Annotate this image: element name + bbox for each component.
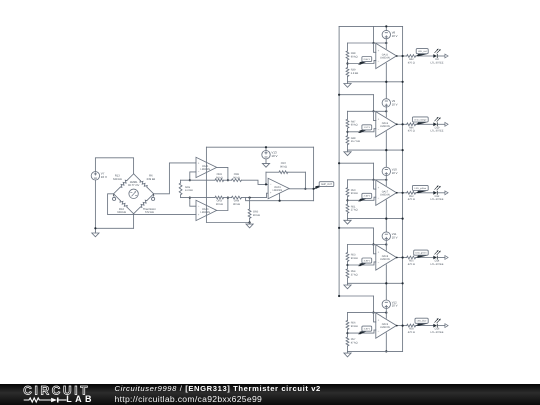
wire block2 minus lead (348, 129, 376, 132)
stub OA18 vminus (385, 265, 387, 285)
wire bridge bottom rail (95, 227, 133, 229)
wire OA16 output (396, 123, 407, 125)
wire OA18 output (396, 256, 407, 258)
wire LED to terminator (438, 325, 445, 327)
ground G3 under OR5 (246, 223, 253, 228)
resistor OR2 90k (215, 173, 224, 181)
junction V7-ground (94, 227, 96, 229)
thermistor RT1 bridge bottom-right (134, 194, 156, 214)
wire row1 left (181, 179, 215, 181)
plot url (115, 395, 263, 404)
wire bridge bottom stub (133, 214, 135, 229)
wire LED to terminator (438, 123, 445, 125)
op-amp OA23 (268, 178, 289, 198)
wire block1 plus lead (374, 43, 376, 52)
wire block1 ref bus (348, 42, 387, 44)
node block1 vsrc junction (385, 42, 387, 44)
svg-text:LED_green: LED_green (415, 252, 427, 255)
wire OA21 inverting lead (190, 172, 196, 180)
svg-text:90 kΩ: 90 kΩ (216, 176, 223, 179)
stub OA19 vplus (385, 313, 387, 319)
wire block1 bottom (348, 81, 404, 83)
svg-text:LTL-307EE: LTL-307EE (431, 130, 444, 133)
node block3 divider junction (346, 199, 348, 201)
wire OA23 negative supply (246, 198, 314, 201)
svg-text:90 kΩ: 90 kΩ (351, 124, 358, 127)
svg-text:90 kΩ: 90 kΩ (351, 192, 358, 195)
resistor OR6 90k (232, 173, 242, 181)
svg-text:47 kΩ: 47 kΩ (351, 342, 358, 345)
op-amp OA16 (376, 112, 397, 137)
wire supply rail top (206, 146, 313, 148)
wire V7 bottom to ground rail (94, 180, 96, 231)
plot title (115, 385, 321, 393)
node block2 tap junction (372, 110, 374, 112)
wire to LED (416, 55, 434, 57)
wire row2 left (181, 197, 215, 199)
stub OA16 vplus (385, 111, 387, 117)
node row1 junction a (189, 179, 191, 181)
svg-text:16.7 kΩ: 16.7 kΩ (351, 140, 360, 143)
op-amp OA18 (376, 245, 397, 270)
resistor R13 bridge top-left (113, 174, 134, 194)
wire row1 mid (224, 179, 232, 181)
voltage source V12 10 V (382, 282, 397, 312)
terminator block4 (445, 256, 448, 260)
node block1 tap junction (372, 42, 374, 44)
wire left rail (338, 26, 340, 296)
voltage source V8 10 V (382, 25, 397, 43)
terminator block2 (445, 122, 448, 126)
resistor R56 90k (346, 313, 358, 334)
svg-text:LM324N: LM324N (380, 258, 390, 261)
resistor OR3 90k (215, 196, 224, 206)
svg-text:LM324N: LM324N (200, 168, 210, 171)
wire block4 ref bus (348, 244, 387, 246)
net flag 0.66 V voltage label (358, 57, 372, 65)
svg-text:+: + (378, 318, 380, 322)
stub OA16 vminus (385, 132, 387, 152)
wire OR7 right lead (304, 172, 306, 190)
gain resistor GRx 4.3k (179, 180, 192, 197)
wire block3 plus lead (374, 180, 376, 189)
resistor R48 16.7 kΩ (346, 132, 360, 150)
resistor OR4 90k (232, 196, 242, 206)
node row2 junction a (189, 197, 191, 199)
LED D8 (431, 49, 444, 65)
wire block5 ref bus (348, 312, 387, 314)
voltage source V7 10 V (91, 172, 107, 180)
svg-text:470 Ω: 470 Ω (408, 198, 415, 201)
svg-text:−: − (378, 128, 380, 132)
svg-text:27 kΩ: 27 kΩ (351, 209, 358, 212)
stub OA18 vplus (385, 245, 387, 251)
net flag 2.48 V voltage label (358, 193, 372, 201)
svg-text:+: + (378, 250, 380, 254)
resistor R47 90k (346, 111, 358, 132)
node block1 divider junction (346, 62, 348, 64)
svg-text:90 kΩ: 90 kΩ (253, 214, 260, 217)
wire LED to terminator (438, 55, 445, 57)
svg-text:1.57 V: 1.57 V (364, 126, 371, 129)
svg-text:−: − (378, 196, 380, 200)
net flag LED_green (414, 250, 429, 258)
svg-text:36.77 mV: 36.77 mV (128, 184, 140, 187)
voltage source V9 10 V (382, 81, 397, 112)
LED D16 (431, 318, 444, 334)
svg-text:90 kΩ: 90 kΩ (351, 325, 358, 328)
svg-text:+: + (198, 213, 200, 217)
svg-text:−: − (378, 59, 380, 63)
resistor R16 bridge bottom-left (114, 194, 134, 214)
svg-text:90 kΩ: 90 kΩ (351, 257, 358, 260)
wire OA17 output (396, 192, 407, 194)
svg-text:+: + (270, 191, 272, 195)
wire block2 top tap (338, 94, 374, 96)
svg-text:572 kΩ: 572 kΩ (145, 211, 154, 214)
resistor R39 6.8 kΩ (346, 64, 358, 82)
svg-text:2.48 V: 2.48 V (364, 195, 371, 198)
wire block5 bottom (348, 350, 403, 352)
resistor R53 90k (346, 245, 358, 266)
svg-text:LAB: LAB (66, 394, 95, 404)
ground G1 (92, 231, 99, 237)
meter XMM1 (128, 181, 140, 199)
wire block4 bottom (348, 282, 404, 284)
svg-text:LM324N: LM324N (380, 57, 390, 60)
node row1 junction b (227, 179, 229, 181)
resistor R50 90k (346, 180, 358, 201)
wire block2 tap drop (373, 95, 375, 112)
svg-text:639 kΩ: 639 kΩ (113, 178, 122, 181)
svg-text:6.8 kΩ: 6.8 kΩ (351, 72, 359, 75)
node block3 tap junction (372, 179, 374, 181)
node block4 tap junction (372, 243, 374, 245)
svg-text:LM324N: LM324N (380, 326, 390, 329)
wire supply drop right (313, 147, 315, 201)
svg-text:AMP_OUT: AMP_OUT (321, 183, 333, 186)
svg-text:−: − (378, 329, 380, 333)
ground G8 (344, 351, 351, 357)
svg-text:0.66 V: 0.66 V (364, 58, 371, 61)
node block5 tap junction (372, 312, 374, 314)
resistor OR7 90k feedback (266, 162, 305, 174)
wire block5 top tap (338, 295, 374, 297)
wire block1 minus lead (348, 60, 376, 63)
svg-text:+: + (378, 49, 380, 53)
svg-text:90 kΩ: 90 kΩ (233, 176, 240, 179)
footer bar (0, 384, 540, 405)
svg-text:4.3 kΩ: 4.3 kΩ (185, 189, 193, 192)
node row2 junction b (227, 197, 229, 199)
wire OA20 inverting lead (190, 198, 196, 207)
wire row1 to OA23 minus (241, 180, 268, 184)
svg-text:10 V: 10 V (392, 102, 398, 106)
resistor R55 470 (407, 256, 416, 266)
LED D12 (431, 186, 444, 202)
svg-text:10 V: 10 V (392, 34, 398, 38)
wire bridge left to lower amp (108, 194, 196, 215)
svg-text:4.30 V: 4.30 V (364, 328, 371, 331)
stub OA11 vminus (385, 63, 387, 83)
svg-text:LTL-307EE: LTL-307EE (431, 263, 444, 266)
net flag 4.30 V voltage label (358, 326, 372, 334)
wire row2 to OA23 plus (241, 193, 268, 197)
svg-text:10 V: 10 V (392, 171, 398, 175)
wire block2 ref bus (348, 110, 387, 112)
probe terminal right (152, 194, 155, 201)
svg-text:−: − (270, 182, 272, 186)
svg-text:10 V: 10 V (271, 154, 277, 158)
resistor OR5 90k (248, 198, 260, 223)
svg-text:470 Ω: 470 Ω (408, 130, 415, 133)
wire block4 tap drop (373, 228, 375, 245)
wire OA19 output (396, 325, 407, 327)
resistor R52 470 (407, 191, 416, 201)
svg-text:LTL-307EE: LTL-307EE (431, 61, 444, 64)
svg-text:470 Ω: 470 Ω (408, 263, 415, 266)
wire to LED (416, 123, 434, 125)
svg-text:10 V: 10 V (392, 236, 398, 240)
svg-text:−: − (378, 261, 380, 265)
svg-text:LTL-307EE: LTL-307EE (431, 331, 444, 334)
wire block3 ref bus (348, 179, 387, 181)
wire block4 plus lead (374, 245, 376, 254)
net flag LED_orange (412, 117, 428, 125)
wire bridge right to upper amp (154, 163, 196, 194)
node block2 vsrc junction (385, 110, 387, 112)
wire V7 top to bridge top (95, 158, 133, 174)
node ground junction (249, 221, 251, 223)
resistor R46 470 (407, 123, 416, 133)
resistor R38 90k (346, 43, 358, 64)
svg-text:−: − (198, 204, 200, 208)
svg-text:3.39 V: 3.39 V (364, 259, 371, 262)
wire block3 bottom (348, 218, 404, 220)
svg-text:LM324N: LM324N (273, 189, 283, 192)
node block5 vsrc junction (385, 312, 387, 314)
voltage source V13 10 V (262, 146, 278, 159)
wire block1 top (339, 25, 403, 27)
probe terminal left (113, 194, 116, 201)
svg-text:90 kΩ: 90 kΩ (233, 203, 240, 206)
ground G6 (344, 219, 351, 225)
resistor R6 bridge top-right (134, 174, 156, 194)
LED D14 (431, 250, 444, 266)
terminator block5 (445, 324, 448, 328)
wire block2 bottom (348, 149, 404, 151)
wire LED to terminator (438, 192, 445, 194)
svg-text:+: + (378, 117, 380, 121)
wire OA20 negative supply (206, 217, 249, 223)
svg-text:470 Ω: 470 Ω (408, 61, 415, 64)
op-amp OA20 (196, 200, 217, 220)
wire block3 top tap (338, 162, 374, 164)
svg-text:−: − (198, 170, 200, 174)
op-amp OA11 (376, 43, 397, 68)
wire OA21 output lead (217, 167, 228, 180)
wire row2 mid (224, 197, 232, 199)
resistor R54 37 kΩ (346, 265, 358, 283)
ground G4 (344, 82, 351, 88)
svg-text:LED_yellow: LED_yellow (415, 187, 427, 190)
ground G5 (344, 150, 351, 156)
wire right rail (402, 26, 404, 351)
svg-text:639 kΩ: 639 kΩ (147, 178, 156, 181)
wire block5 plus lead (374, 313, 376, 322)
svg-text:LED_blue: LED_blue (417, 320, 427, 323)
net flag LED_red (416, 49, 428, 57)
svg-text:LED_orange: LED_orange (414, 118, 427, 121)
ground G7 (344, 283, 351, 289)
node block3 vsrc junction (385, 179, 387, 181)
ground G2 under V13 (262, 159, 269, 167)
wire block4 top tap (338, 227, 374, 229)
resistor R57 47 kΩ (346, 333, 358, 351)
wire supply drop left (205, 147, 207, 217)
net flag LED_yellow (412, 185, 428, 193)
wire OA23 output (289, 188, 315, 190)
stub OA17 vminus (385, 200, 387, 220)
node block2 divider junction (346, 131, 348, 133)
net flag LED_blue (415, 318, 428, 326)
voltage source V11 10 V (382, 218, 397, 245)
net flag 1.57 V voltage label (358, 125, 372, 133)
svg-text:470 Ω: 470 Ω (408, 331, 415, 334)
op-amp OA19 (376, 313, 397, 338)
LED D10 (431, 117, 444, 133)
wire block5 tap drop (373, 296, 375, 313)
svg-text:LTL-307EE: LTL-307EE (431, 198, 444, 201)
terminator block1 (445, 54, 448, 58)
wire LED to terminator (438, 257, 445, 259)
svg-text:90 kΩ: 90 kΩ (216, 203, 223, 206)
node row2 junction c (249, 197, 251, 199)
wire to LED (416, 192, 434, 194)
node block4 vsrc junction (385, 243, 387, 245)
wire block3 minus lead (348, 197, 376, 200)
resistor R58 470 (407, 324, 416, 334)
node block5 divider junction (346, 332, 348, 334)
stub OA23 vminus (279, 194, 281, 202)
resistor R42 470 (407, 55, 416, 65)
svg-text:37 kΩ: 37 kΩ (351, 273, 358, 276)
wire block4 minus lead (348, 262, 376, 265)
svg-text:10 V: 10 V (392, 304, 398, 308)
svg-text:90 kΩ: 90 kΩ (280, 165, 287, 168)
wire OR7 left lead (265, 172, 267, 185)
wire block2 plus lead (374, 111, 376, 120)
wire block1 tap drop (373, 26, 375, 43)
resistor R51 27 kΩ (346, 200, 358, 218)
net flag 3.39 V voltage label (358, 258, 372, 266)
op-amp OA17 (376, 180, 397, 205)
stub OA11 vplus (385, 43, 387, 49)
terminator block3 (445, 191, 448, 195)
wire block5 minus lead (348, 330, 376, 333)
svg-text:LM324N: LM324N (380, 193, 390, 196)
wire OA11 output (396, 55, 407, 57)
stub OA19 vminus (385, 333, 387, 353)
svg-text:LM324N: LM324N (380, 125, 390, 128)
svg-text:10 V: 10 V (101, 175, 107, 179)
svg-text:639 kΩ: 639 kΩ (117, 211, 126, 214)
wire to LED (416, 257, 434, 259)
svg-text:LED_red: LED_red (418, 50, 427, 53)
net flag AMP_OUT (314, 182, 334, 189)
CircuitLab logo (0, 384, 100, 405)
wire OA20 output lead (217, 198, 228, 211)
wire to LED (416, 325, 434, 327)
op-amp OA21 (196, 157, 217, 177)
svg-text:+: + (198, 161, 200, 165)
node block4 divider junction (346, 264, 348, 266)
voltage source V10 10 V (382, 149, 397, 180)
svg-text:LM324N: LM324N (200, 211, 210, 214)
svg-text:90 kΩ: 90 kΩ (351, 55, 358, 58)
stub OA17 vplus (385, 180, 387, 186)
svg-text:+: + (378, 185, 380, 189)
wire block3 tap drop (373, 163, 375, 180)
